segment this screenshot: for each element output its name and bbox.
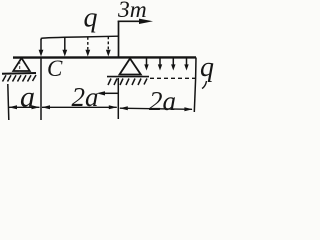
- svg-text:C: C: [47, 56, 63, 81]
- right load arrow at x186: [184, 58, 188, 71]
- load arrow at x108 (dashed): [106, 37, 111, 57]
- distributed load q top line (left span): [41, 36, 118, 40]
- right load dashed baseline: [150, 77, 196, 79]
- left pin support triangle: [13, 58, 30, 71]
- extension line at C: [40, 58, 42, 120]
- svg-text:q: q: [200, 52, 214, 83]
- middle pin support triangle: [120, 59, 141, 75]
- label 3m: [117, 0, 147, 23]
- load arrow at x88 (dashed): [85, 37, 90, 57]
- right load arrow at x160: [158, 58, 162, 71]
- right load arrow at x173: [171, 58, 175, 71]
- right load arrow at x146: [144, 58, 148, 71]
- label q (right distributed load): [200, 52, 214, 89]
- middle support ground line: [107, 76, 149, 78]
- force arrow 3m: [118, 19, 153, 24]
- extension line left end: [8, 84, 9, 120]
- load arrow at x41: [39, 39, 44, 57]
- dimension 2a (middle) line: [42, 105, 117, 109]
- auxiliary arrow to force point: [97, 91, 119, 95]
- svg-text:q: q: [84, 3, 98, 34]
- label 2a (right): [149, 86, 176, 116]
- label 2a (middle): [72, 82, 99, 112]
- label a: [20, 81, 35, 114]
- label q (left distributed load): [84, 3, 98, 34]
- middle support hatching: [108, 79, 147, 86]
- svg-text:2a: 2a: [149, 86, 176, 116]
- dimension 2a (right) line: [120, 106, 193, 111]
- beam AB: [13, 56, 196, 59]
- force bracket vertical: [118, 21, 120, 57]
- svg-text:2a: 2a: [72, 82, 99, 112]
- label C: [47, 56, 63, 81]
- extension line right end: [194, 79, 195, 112]
- right load end vertical: [195, 58, 197, 80]
- left support ground line: [2, 72, 36, 75]
- load arrow at x65: [62, 37, 67, 56]
- svg-text:a: a: [20, 81, 35, 114]
- svg-text:3m: 3m: [117, 0, 147, 23]
- left support hatching: [3, 75, 37, 82]
- extension line at force point: [117, 78, 119, 119]
- dimension a line: [9, 105, 40, 109]
- left support centerline: [19, 61, 21, 72]
